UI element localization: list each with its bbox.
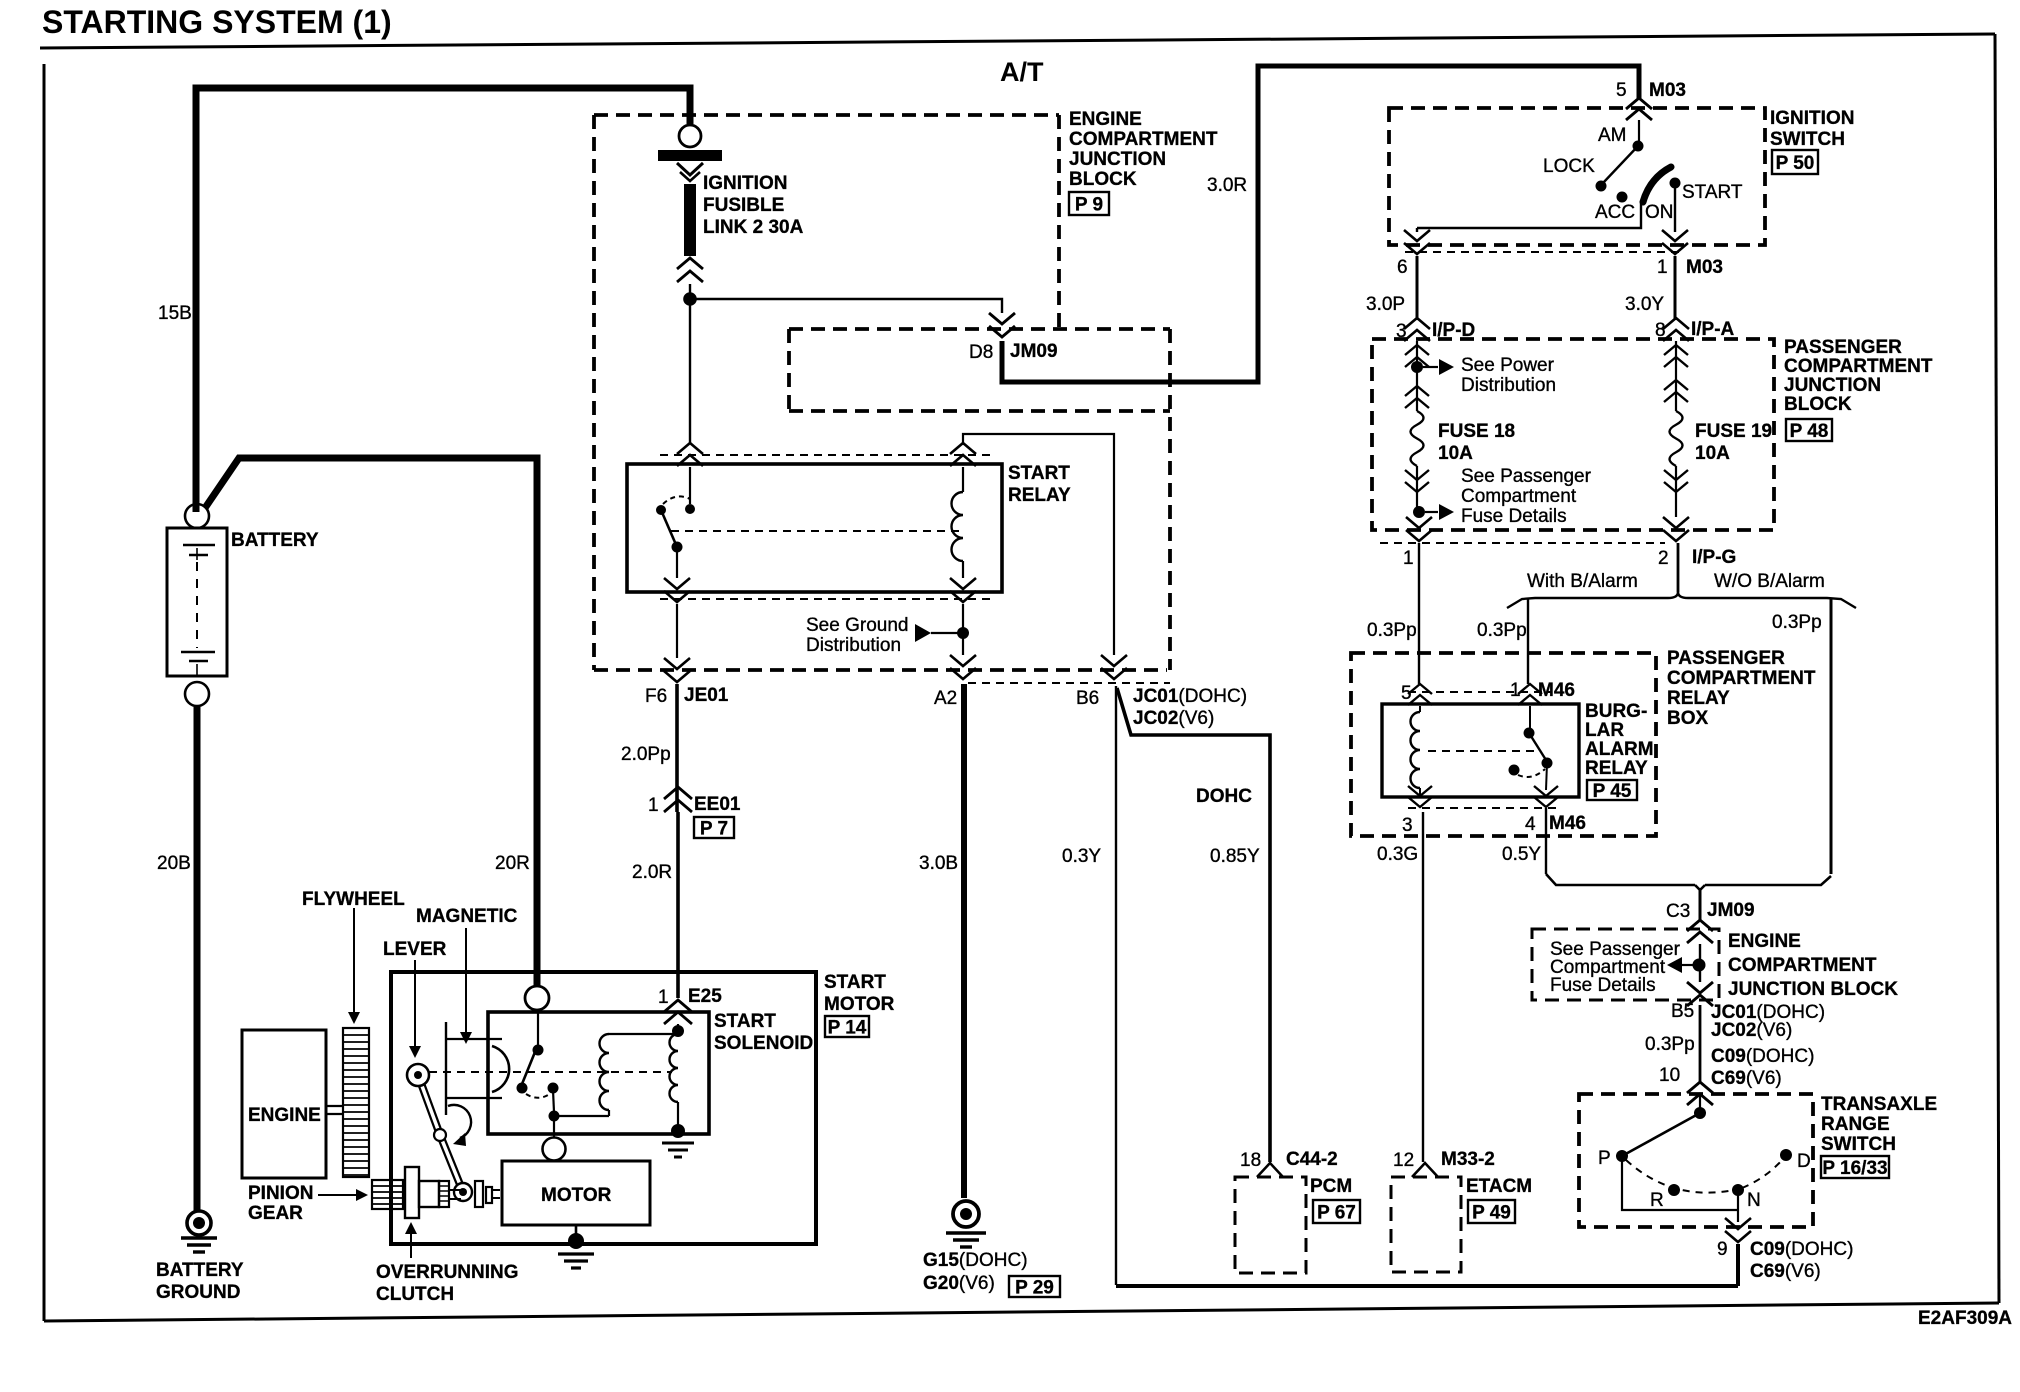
svg-text:ETACM: ETACM bbox=[1466, 1176, 1532, 1197]
svg-text:COMPARTMENT: COMPARTMENT bbox=[1069, 129, 1218, 150]
wire 20B battery negative to ground bbox=[194, 706, 201, 1212]
svg-text:2.0R: 2.0R bbox=[632, 862, 672, 883]
svg-text:LEVER: LEVER bbox=[383, 939, 447, 960]
svg-text:C69(V6): C69(V6) bbox=[1750, 1261, 1821, 1282]
svg-text:TRANSAXLE: TRANSAXLE bbox=[1821, 1094, 1937, 1115]
engine compartment junction block dashed outline bbox=[594, 115, 1170, 670]
svg-text:BLOCK: BLOCK bbox=[1069, 169, 1137, 190]
svg-text:Fuse Details: Fuse Details bbox=[1550, 975, 1656, 996]
svg-text:C09(DOHC): C09(DOHC) bbox=[1711, 1046, 1814, 1067]
svg-text:C69(V6): C69(V6) bbox=[1711, 1068, 1782, 1089]
svg-text:Fuse Details: Fuse Details bbox=[1461, 506, 1567, 527]
label A/T bbox=[1000, 57, 1044, 87]
wire 0.3Pp to transaxle bbox=[1645, 1005, 1700, 1083]
svg-text:JC01(DOHC): JC01(DOHC) bbox=[1133, 686, 1247, 707]
pinion gear hatched bbox=[372, 1180, 403, 1209]
svg-text:PASSENGER: PASSENGER bbox=[1784, 337, 1902, 358]
svg-text:5: 5 bbox=[1616, 80, 1627, 101]
svg-text:LINK 2 30A: LINK 2 30A bbox=[703, 217, 804, 238]
wire 15B battery positive to fusible link bbox=[196, 88, 690, 512]
label 2.0R bbox=[632, 862, 672, 883]
connector 3 I/P-D bbox=[1396, 318, 1475, 342]
ignition switch contacts bbox=[1543, 120, 1743, 223]
connector D8 JM09 bbox=[969, 313, 1058, 363]
svg-text:P: P bbox=[1598, 1148, 1611, 1169]
label FLYWHEEL with arrow bbox=[302, 889, 405, 1024]
svg-text:SWITCH: SWITCH bbox=[1770, 129, 1845, 150]
magnetic core bbox=[446, 1022, 509, 1115]
svg-text:P 7: P 7 bbox=[700, 819, 728, 840]
fusible link terminal circle bbox=[679, 125, 701, 147]
passenger compartment junction block dashed box bbox=[1372, 339, 1774, 530]
connector strip A2 B6 dashed bbox=[968, 682, 1170, 684]
label 20B bbox=[157, 853, 191, 874]
wire pin 9 down to bottom bus bbox=[1736, 1244, 1740, 1286]
svg-text:OVERRUNNING: OVERRUNNING bbox=[376, 1262, 519, 1283]
svg-text:P 14: P 14 bbox=[828, 1018, 867, 1039]
svg-text:JUNCTION BLOCK: JUNCTION BLOCK bbox=[1728, 979, 1898, 1000]
svg-text:C44-2: C44-2 bbox=[1286, 1149, 1338, 1170]
chevrons below fuse 18 bbox=[1405, 466, 1429, 512]
svg-text:JE01: JE01 bbox=[684, 685, 729, 706]
svg-text:M03: M03 bbox=[1649, 80, 1686, 101]
svg-text:RANGE: RANGE bbox=[1821, 1114, 1890, 1135]
label 0.85Y bbox=[1210, 846, 1260, 867]
svg-text:ENGINE: ENGINE bbox=[1728, 931, 1801, 952]
svg-text:M46: M46 bbox=[1538, 680, 1575, 701]
svg-text:G15(DOHC): G15(DOHC) bbox=[923, 1250, 1028, 1271]
svg-text:P 48: P 48 bbox=[1790, 421, 1829, 442]
motor MOTOR box bbox=[502, 1161, 650, 1225]
solenoid ground bbox=[662, 1124, 694, 1157]
svg-text:AM: AM bbox=[1598, 125, 1627, 146]
svg-text:MOTOR: MOTOR bbox=[824, 994, 895, 1015]
svg-text:EE01: EE01 bbox=[694, 794, 741, 815]
svg-text:START: START bbox=[824, 972, 886, 993]
ground G15 G20 bbox=[923, 1201, 1060, 1299]
svg-text:4: 4 bbox=[1525, 814, 1536, 835]
svg-text:ALARM: ALARM bbox=[1585, 739, 1654, 760]
label 0.3Pp left bbox=[1367, 620, 1417, 641]
label PCM P 67 bbox=[1310, 1176, 1360, 1224]
node junction below fusible link bbox=[683, 284, 697, 443]
svg-text:P 50: P 50 bbox=[1776, 153, 1815, 174]
split bus with flares bbox=[1507, 592, 1856, 608]
burglar alarm relay internal dashed bbox=[1428, 750, 1540, 752]
svg-text:P 45: P 45 bbox=[1593, 781, 1632, 802]
label ETACM P 49 bbox=[1466, 1176, 1532, 1224]
connector pin 5 M46 bbox=[1401, 683, 1432, 705]
svg-text:BATTERY: BATTERY bbox=[231, 530, 319, 551]
svg-text:ENGINE: ENGINE bbox=[1069, 109, 1142, 130]
svg-text:I/P-G: I/P-G bbox=[1692, 547, 1736, 568]
start motor battery terminal circle bbox=[525, 986, 549, 1010]
burglar alarm relay coil bbox=[1411, 706, 1421, 795]
connector strip M03 dashed bbox=[1405, 251, 1680, 253]
svg-text:C09(DOHC): C09(DOHC) bbox=[1750, 1239, 1853, 1260]
svg-text:9: 9 bbox=[1717, 1239, 1728, 1260]
svg-text:10: 10 bbox=[1659, 1065, 1680, 1086]
lever rotation arrow bbox=[448, 1105, 471, 1146]
svg-text:P 67: P 67 bbox=[1317, 1203, 1356, 1224]
svg-text:COMPARTMENT: COMPARTMENT bbox=[1784, 356, 1933, 377]
svg-text:GROUND: GROUND bbox=[156, 1282, 240, 1303]
wire 3.0B bbox=[961, 684, 967, 1198]
svg-text:1: 1 bbox=[1403, 548, 1414, 569]
passenger compartment relay box dashed bbox=[1351, 653, 1656, 836]
PCM dashed box bbox=[1235, 1177, 1306, 1273]
svg-text:1: 1 bbox=[658, 987, 669, 1008]
ignition fusible link 2 30A bbox=[658, 150, 804, 282]
burglar alarm relay box bbox=[1382, 704, 1579, 797]
transaxle range switch dashed box bbox=[1579, 1094, 1813, 1227]
svg-text:M46: M46 bbox=[1549, 813, 1586, 834]
overrunning clutch bbox=[405, 1167, 461, 1218]
svg-text:ON: ON bbox=[1645, 202, 1674, 223]
motor terminal circle bbox=[543, 1121, 566, 1161]
svg-text:JM09: JM09 bbox=[1707, 900, 1755, 921]
transaxle switch contacts bbox=[1598, 1094, 1811, 1222]
svg-text:JC02(V6): JC02(V6) bbox=[1711, 1020, 1792, 1041]
svg-text:2.0Pp: 2.0Pp bbox=[621, 744, 671, 765]
start relay coil bbox=[950, 443, 976, 578]
svg-text:20B: 20B bbox=[157, 853, 191, 874]
title STARTING SYSTEM (1) bbox=[42, 4, 392, 40]
svg-text:BATTERY: BATTERY bbox=[156, 1260, 244, 1281]
wire 0.3Pp with alarm branch bbox=[1527, 598, 1529, 684]
wire 3.0Y bbox=[1625, 256, 1675, 320]
connector 5 M03 bbox=[1616, 80, 1686, 120]
svg-text:BLOCK: BLOCK bbox=[1784, 394, 1852, 415]
label 20R bbox=[495, 853, 530, 874]
wire 0.5Y bbox=[1545, 808, 1547, 874]
svg-text:M33-2: M33-2 bbox=[1441, 1149, 1495, 1170]
connector 8 I/P-A bbox=[1655, 318, 1735, 341]
label ENGINE COMPARTMENT JUNCTION BLOCK lower bbox=[1728, 931, 1898, 1000]
svg-text:12: 12 bbox=[1393, 1150, 1414, 1171]
svg-text:G20(V6): G20(V6) bbox=[923, 1273, 995, 1294]
svg-text:10A: 10A bbox=[1438, 443, 1473, 464]
junction block left branch wire bbox=[1405, 341, 1429, 411]
flywheel hatched bbox=[343, 1028, 369, 1177]
chevrons above fuse 18 bbox=[1405, 386, 1429, 408]
connector C3 JM09 bbox=[1666, 888, 1755, 943]
label PASSENGER COMPARTMENT JUNCTION BLOCK P 48 bbox=[1784, 337, 1933, 442]
connector F6 JE01 bbox=[645, 658, 729, 707]
label START MOTOR P 14 bbox=[824, 972, 895, 1039]
ETACM dashed box bbox=[1391, 1177, 1461, 1272]
label 0.3G bbox=[1377, 844, 1418, 865]
svg-text:M03: M03 bbox=[1686, 257, 1723, 278]
connector A2 exit bbox=[934, 655, 976, 709]
svg-text:A2: A2 bbox=[934, 688, 957, 709]
label PINION GEAR with arrow bbox=[248, 1183, 368, 1224]
connector B6 exit bbox=[1076, 655, 1247, 729]
svg-text:PCM: PCM bbox=[1310, 1176, 1352, 1197]
start motor outer box bbox=[391, 972, 816, 1244]
svg-text:0.3Pp: 0.3Pp bbox=[1477, 620, 1527, 641]
start relay switch bbox=[656, 443, 703, 578]
motor coupling pieces bbox=[475, 1181, 500, 1207]
merge bus to C3 bbox=[1546, 874, 1831, 890]
label 0.3Pp mid bbox=[1477, 620, 1527, 641]
burglar alarm relay switch bbox=[1509, 706, 1553, 790]
wire 1 to burglar alarm relay pin 5 bbox=[1418, 543, 1420, 684]
svg-text:20R: 20R bbox=[495, 853, 530, 874]
svg-text:RELAY: RELAY bbox=[1585, 758, 1648, 779]
engine ENGINE box bbox=[242, 1030, 326, 1178]
svg-text:3.0P: 3.0P bbox=[1366, 294, 1405, 315]
svg-text:P 9: P 9 bbox=[1075, 195, 1103, 216]
svg-text:1: 1 bbox=[648, 795, 659, 816]
svg-text:15B: 15B bbox=[158, 303, 192, 324]
svg-text:F6: F6 bbox=[645, 686, 667, 707]
svg-text:N: N bbox=[1747, 1190, 1761, 1211]
svg-text:0.3Pp: 0.3Pp bbox=[1645, 1034, 1695, 1055]
svg-text:3: 3 bbox=[1402, 815, 1413, 836]
svg-text:I/P-A: I/P-A bbox=[1691, 319, 1735, 340]
connector strip M46 bottom dashed bbox=[1408, 807, 1556, 809]
label PASSENGER COMPARTMENT RELAY BOX bbox=[1667, 648, 1816, 729]
svg-text:FLYWHEEL: FLYWHEEL bbox=[302, 889, 405, 910]
start relay box bbox=[627, 464, 1002, 592]
svg-text:B6: B6 bbox=[1076, 688, 1099, 709]
svg-text:0.3Pp: 0.3Pp bbox=[1772, 612, 1822, 633]
svg-text:JUNCTION: JUNCTION bbox=[1784, 375, 1881, 396]
svg-text:JC02(V6): JC02(V6) bbox=[1133, 708, 1214, 729]
svg-text:SWITCH: SWITCH bbox=[1821, 1134, 1896, 1155]
svg-text:JM09: JM09 bbox=[1010, 341, 1058, 362]
svg-text:START: START bbox=[1008, 463, 1070, 484]
wire 20R battery positive to start motor bbox=[205, 458, 537, 986]
diagram code E2AF309A bbox=[1918, 1308, 2012, 1329]
fuse 18 10A bbox=[1411, 411, 1516, 466]
connector 1 E25 bbox=[658, 986, 722, 1024]
label ENGINE COMPARTMENT JUNCTION BLOCK P 9 bbox=[1069, 109, 1218, 216]
svg-text:JUNCTION: JUNCTION bbox=[1069, 149, 1166, 170]
svg-text:See Passenger: See Passenger bbox=[1461, 466, 1592, 487]
svg-text:R: R bbox=[1650, 1190, 1664, 1211]
svg-text:RELAY: RELAY bbox=[1667, 688, 1730, 709]
solenoid plunger dashed axis bbox=[429, 1071, 672, 1073]
label W/O B/Alarm bbox=[1714, 571, 1825, 592]
svg-text:P 16/33: P 16/33 bbox=[1822, 1158, 1887, 1179]
svg-text:D8: D8 bbox=[969, 342, 993, 363]
connector 1 EE01 P 7 bbox=[648, 787, 741, 840]
ignition START output wire bbox=[1674, 188, 1676, 232]
wire through lower junction block bbox=[1699, 944, 1701, 982]
svg-text:A/T: A/T bbox=[1000, 57, 1044, 87]
solenoid contact switch bbox=[517, 1010, 610, 1122]
svg-text:P 29: P 29 bbox=[1015, 1278, 1054, 1299]
shift lever linkage bbox=[407, 1064, 472, 1201]
see passenger fuse details note bbox=[1550, 939, 1706, 996]
svg-text:ENGINE: ENGINE bbox=[248, 1105, 321, 1126]
svg-text:0.3G: 0.3G bbox=[1377, 844, 1418, 865]
battery BATTERY bbox=[167, 504, 319, 706]
motor ground bbox=[558, 1225, 594, 1268]
svg-text:See Ground: See Ground bbox=[806, 615, 908, 636]
exit connector 1 left branch bbox=[1403, 512, 1432, 569]
svg-text:GEAR: GEAR bbox=[248, 1203, 303, 1224]
exit connector 9 C09 C69 bbox=[1717, 1218, 1853, 1282]
label 0.3Pp right bbox=[1772, 612, 1822, 633]
svg-text:With B/Alarm: With B/Alarm bbox=[1527, 571, 1638, 592]
start relay output chevrons F6 side bbox=[664, 578, 690, 658]
svg-text:Compartment: Compartment bbox=[1461, 486, 1577, 507]
svg-text:0.3Pp: 0.3Pp bbox=[1367, 620, 1417, 641]
svg-text:PINION: PINION bbox=[248, 1183, 313, 1204]
svg-text:COMPARTMENT: COMPARTMENT bbox=[1667, 668, 1816, 689]
start solenoid box bbox=[488, 1012, 709, 1134]
start relay internal dashed line bbox=[671, 530, 960, 532]
svg-text:FUSE 18: FUSE 18 bbox=[1438, 421, 1515, 442]
see passenger compartment fuse details note bbox=[1413, 466, 1592, 527]
start relay plug-in dashed lines bbox=[660, 455, 990, 599]
svg-text:1: 1 bbox=[1510, 680, 1521, 701]
see passenger fuse details dashed box bbox=[1532, 929, 1719, 1000]
svg-text:CLUTCH: CLUTCH bbox=[376, 1284, 454, 1305]
connector 18 C44-2 bbox=[1240, 1149, 1338, 1177]
label TRANSAXLE RANGE SWITCH P 16/33 bbox=[1821, 1094, 1937, 1179]
svg-text:B5: B5 bbox=[1671, 1001, 1694, 1022]
label START RELAY bbox=[1008, 463, 1071, 506]
ignition exit connector 1 M03 bbox=[1657, 230, 1723, 278]
svg-text:Distribution: Distribution bbox=[1461, 375, 1556, 396]
wire 3.0R JM09 to ignition switch M03 bbox=[1002, 66, 1639, 382]
svg-text:3.0B: 3.0B bbox=[919, 853, 958, 874]
engine to flywheel shaft bbox=[326, 1106, 343, 1114]
label LEVER with arrow bbox=[383, 939, 447, 1058]
label OVERRUNNING CLUTCH with arrow bbox=[376, 1222, 519, 1305]
label 2.0Pp bbox=[621, 744, 671, 765]
ignition switch dashed box bbox=[1389, 108, 1765, 245]
bottom wire to transaxle pin 9 bbox=[1116, 1284, 1738, 1288]
label 3.0R bbox=[1207, 175, 1247, 196]
connector pin 4 M46 bbox=[1525, 786, 1586, 835]
svg-text:MAGNETIC: MAGNETIC bbox=[416, 906, 518, 927]
connector strip I/P dashed bbox=[1380, 542, 1665, 544]
svg-text:LOCK: LOCK bbox=[1543, 156, 1595, 177]
svg-text:E2AF309A: E2AF309A bbox=[1918, 1308, 2012, 1329]
svg-text:IGNITION: IGNITION bbox=[703, 173, 787, 194]
connector 10 C09 C69 bbox=[1659, 1046, 1814, 1105]
svg-text:P 49: P 49 bbox=[1472, 1203, 1511, 1224]
wire 0.3G bbox=[1422, 812, 1424, 1162]
start relay output chevrons A2 side bbox=[950, 578, 976, 655]
wire I/P-G to split bbox=[1677, 543, 1680, 592]
label 0.3Y bbox=[1062, 846, 1101, 867]
svg-text:18: 18 bbox=[1240, 1150, 1261, 1171]
svg-text:FUSIBLE: FUSIBLE bbox=[703, 195, 784, 216]
solenoid hold-in coil bbox=[670, 1024, 685, 1126]
svg-text:Distribution: Distribution bbox=[806, 635, 901, 656]
svg-text:3.0R: 3.0R bbox=[1207, 175, 1247, 196]
svg-text:3.0Y: 3.0Y bbox=[1625, 294, 1664, 315]
wire 2.0R bbox=[676, 812, 680, 998]
label BURG-LAR ALARM RELAY P 45 bbox=[1585, 701, 1654, 802]
svg-text:0.3Y: 0.3Y bbox=[1062, 846, 1101, 867]
svg-text:5: 5 bbox=[1401, 683, 1412, 704]
ignition switch ACC ON output wire bbox=[1417, 203, 1641, 232]
exit connector B5 bbox=[1671, 982, 1825, 1041]
svg-text:BURG-: BURG- bbox=[1585, 701, 1647, 722]
junction block right branch wire bbox=[1664, 341, 1688, 411]
label MAGNETIC with arrow bbox=[416, 906, 518, 1044]
svg-text:START: START bbox=[1682, 182, 1743, 203]
svg-text:6: 6 bbox=[1397, 257, 1408, 278]
wire 3.0P bbox=[1366, 256, 1417, 320]
label 15B bbox=[158, 303, 192, 324]
wire W/O B/Alarm down bbox=[1830, 598, 1833, 874]
connector 12 M33-2 bbox=[1393, 1149, 1495, 1177]
svg-text:0.85Y: 0.85Y bbox=[1210, 846, 1260, 867]
svg-text:0.5Y: 0.5Y bbox=[1502, 844, 1541, 865]
svg-text:BOX: BOX bbox=[1667, 708, 1709, 729]
svg-text:STARTING SYSTEM (1): STARTING SYSTEM (1) bbox=[42, 4, 392, 40]
svg-text:PASSENGER: PASSENGER bbox=[1667, 648, 1785, 669]
svg-text:W/O B/Alarm: W/O B/Alarm bbox=[1714, 571, 1825, 592]
chevrons below fuse 19 bbox=[1664, 466, 1688, 517]
wire 0.3Y bbox=[1115, 686, 1117, 1285]
see ground distribution note bbox=[806, 615, 969, 656]
label START SOLENOID bbox=[714, 1011, 813, 1054]
svg-text:2: 2 bbox=[1658, 548, 1669, 569]
svg-text:MOTOR: MOTOR bbox=[541, 1185, 612, 1206]
svg-text:ACC: ACC bbox=[1595, 202, 1635, 223]
wire junction to JM09 connector bbox=[696, 299, 1002, 313]
label 0.3G 0.5Y bbox=[1502, 844, 1541, 865]
see power distribution note bbox=[1411, 355, 1556, 396]
wire 0.85Y DOHC branch bbox=[1117, 688, 1270, 1162]
solenoid pull-in coil bbox=[600, 1034, 677, 1116]
svg-text:RELAY: RELAY bbox=[1008, 485, 1071, 506]
svg-text:DOHC: DOHC bbox=[1196, 786, 1252, 807]
svg-text:IGNITION: IGNITION bbox=[1770, 108, 1854, 129]
svg-text:E25: E25 bbox=[688, 986, 722, 1007]
wire 2.0Pp bbox=[675, 684, 679, 812]
label 3.0B bbox=[919, 853, 958, 874]
svg-text:D: D bbox=[1797, 1151, 1811, 1172]
svg-text:LAR: LAR bbox=[1585, 720, 1624, 741]
connector pin 1 M46 bbox=[1510, 680, 1575, 705]
wire to B6 from relay coil top bbox=[963, 434, 1114, 655]
ignition exit connector 6 bbox=[1397, 230, 1430, 278]
svg-text:See Power: See Power bbox=[1461, 355, 1555, 376]
label DOHC bbox=[1196, 786, 1252, 807]
svg-text:SOLENOID: SOLENOID bbox=[714, 1033, 813, 1054]
exit connector 2 I/P-G bbox=[1658, 517, 1736, 569]
label With B/Alarm bbox=[1527, 571, 1638, 592]
svg-text:1: 1 bbox=[1657, 257, 1668, 278]
svg-text:COMPARTMENT: COMPARTMENT bbox=[1728, 955, 1877, 976]
svg-text:C3: C3 bbox=[1666, 901, 1690, 922]
connector pin 3 M46 bbox=[1402, 786, 1432, 836]
svg-text:10A: 10A bbox=[1695, 443, 1730, 464]
battery ground symbol bbox=[156, 1211, 244, 1303]
fuse 19 10A bbox=[1670, 411, 1773, 466]
svg-text:START: START bbox=[714, 1011, 776, 1032]
svg-text:FUSE 19: FUSE 19 bbox=[1695, 421, 1772, 442]
connector strip M46 top dashed bbox=[1408, 691, 1552, 693]
label IGNITION SWITCH P 50 bbox=[1770, 108, 1854, 174]
